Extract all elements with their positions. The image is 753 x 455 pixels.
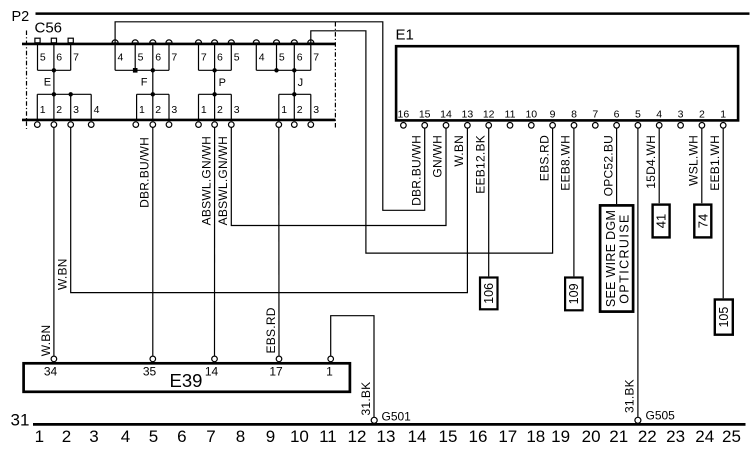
ground rail 31 [33,423,746,426]
svg-text:3: 3 [234,104,240,116]
svg-text:C56: C56 [35,20,63,37]
svg-text:1: 1 [720,108,726,120]
junction P bottom pin 2 [212,92,216,96]
svg-text:4: 4 [118,52,124,64]
svg-text:DBR.BU/WH: DBR.BU/WH [409,135,423,206]
junction J bottom pin 2 [292,92,296,96]
svg-text:106: 106 [482,283,496,304]
wire ABSWL.GN/WH C56 P:2 to E39:14 [214,128,216,356]
junction on splice E [52,68,56,72]
connector C56 dashed boundary right [334,22,336,129]
terminal box 105 [715,300,733,335]
wire OPC52.BU E1:6 to opticruise box [616,128,618,204]
svg-text:W.BN: W.BN [55,258,69,290]
connector C56 cavity J top pins 4 5 6 7 [253,40,319,70]
svg-text:G505: G505 [646,409,676,423]
svg-text:14: 14 [408,427,427,446]
svg-text:23: 23 [666,427,685,446]
svg-text:17: 17 [498,427,517,446]
svg-text:25: 25 [722,427,741,446]
svg-text:2: 2 [297,104,303,116]
svg-text:15: 15 [419,108,431,120]
svg-text:6: 6 [56,52,62,64]
svg-text:109: 109 [567,283,581,304]
svg-text:DBR.BU/WH: DBR.BU/WH [138,137,152,208]
svg-text:G501: G501 [382,410,412,424]
terminal box 41 [653,205,670,238]
svg-text:15D4.WH: 15D4.WH [644,135,658,189]
svg-text:W.BN: W.BN [452,135,466,167]
junction F bottom pin 2 [151,92,155,96]
svg-text:8: 8 [236,427,245,446]
svg-text:2: 2 [56,104,62,116]
connector C56 cavity F top pins 4 5 6 7 [112,40,177,70]
svg-text:4: 4 [121,427,130,446]
svg-text:1: 1 [35,427,44,446]
svg-text:8: 8 [571,108,577,120]
svg-text:5: 5 [138,52,144,64]
svg-text:OPC52.BU: OPC52.BU [601,135,615,196]
wire splice P link [214,70,216,94]
junction square F pin 5 [133,68,138,73]
svg-text:ABSWL.GN/WH: ABSWL.GN/WH [199,136,213,225]
junction on splice J pin 5 [274,68,278,72]
junction E bottom pin 3 [69,92,73,96]
svg-text:4: 4 [259,52,265,64]
svg-text:EBS.RD: EBS.RD [537,135,551,181]
svg-text:12: 12 [348,427,367,446]
svg-text:12: 12 [483,108,495,120]
wire W.BN C56 E:3 to E1:13 [71,128,468,293]
ECU E39 box [24,363,350,392]
svg-text:E39: E39 [170,370,203,391]
svg-text:1: 1 [326,365,333,379]
svg-text:6: 6 [614,108,620,120]
svg-text:OPTICRUISE: OPTICRUISE [618,213,632,303]
svg-text:7: 7 [73,52,79,64]
wire splice F link [152,70,154,94]
terminal box 106 [480,278,498,310]
connector C56 cavity P top pins 7 6 5 [195,40,239,70]
svg-text:J: J [298,77,304,89]
svg-text:21: 21 [609,427,628,446]
svg-text:14: 14 [440,108,452,120]
svg-text:W.BN: W.BN [39,325,53,357]
junction on splice P [212,68,216,72]
wire C56 lower bus [22,119,335,122]
svg-text:7: 7 [592,108,598,120]
svg-text:35: 35 [143,365,157,379]
svg-text:9: 9 [266,427,275,446]
svg-text:7: 7 [171,52,177,64]
svg-text:7: 7 [201,52,207,64]
wire 15D4.WH E1:4 to terminal 41 [658,128,660,203]
svg-text:SEE WIRE DGM: SEE WIRE DGM [604,210,618,307]
svg-text:11: 11 [505,108,516,120]
connector C56 cavity F bottom pins 1 2 3 [133,94,177,127]
svg-text:WSL.WH: WSL.WH [687,135,701,186]
terminal box 74 [694,205,711,238]
svg-text:19: 19 [551,427,570,446]
svg-text:9: 9 [550,108,556,120]
svg-text:5: 5 [635,108,641,120]
svg-text:7: 7 [313,52,319,64]
connector C56 cavity P bottom pins 1 2 3 [196,94,240,127]
grid reference numbers 1-25 [35,427,741,446]
svg-text:1: 1 [40,104,46,116]
svg-text:14: 14 [205,365,219,379]
svg-text:15: 15 [439,427,458,446]
wire W.BN C56 E:2 to E39:34 [53,128,55,356]
connector C56 cavity E top pins 5 6 7 [35,38,79,70]
svg-text:EEB8.WH: EEB8.WH [559,135,573,191]
svg-text:34: 34 [44,365,58,379]
svg-text:GN/WH: GN/WH [431,135,445,178]
svg-text:1: 1 [201,104,207,116]
svg-text:31.BK: 31.BK [623,379,637,413]
wire EEB12.BK E1:12 to terminal 106 [488,128,490,276]
svg-text:7: 7 [206,427,215,446]
junction on splice F [151,68,155,72]
wire EEB1.WH E1:1 to terminal 105 [722,128,724,298]
wire WSL.WH E1:2 to terminal 74 [701,128,703,203]
svg-text:5: 5 [279,52,285,64]
junction E bottom pin 2 [52,92,56,96]
wire EBS.RD C56 J:7 to E1:9 [311,31,553,253]
svg-text:1: 1 [281,104,287,116]
svg-text:6: 6 [217,52,223,64]
connector C56 cavity J bottom pins 1 2 3 [276,94,319,127]
wire P2 rail [36,12,750,15]
svg-text:10: 10 [525,108,537,120]
svg-text:EEB12.BK: EEB12.BK [473,135,487,194]
wire EBS.RD C56 J:1 to E39:17 [278,128,280,356]
svg-text:3: 3 [73,104,79,116]
svg-text:P2: P2 [12,9,30,25]
svg-text:17: 17 [269,365,283,379]
svg-text:31.BK: 31.BK [359,382,373,416]
svg-text:13: 13 [377,427,396,446]
svg-text:20: 20 [582,427,601,446]
ECU E1 box [396,46,738,120]
wire DBR.BU/WH C56 F:2 to E39:35 [152,128,154,356]
svg-text:18: 18 [526,427,545,446]
svg-text:41: 41 [654,214,669,228]
wire splice J link [293,70,295,94]
svg-text:P: P [219,77,226,89]
svg-text:2: 2 [699,108,705,120]
svg-text:10: 10 [290,427,309,446]
svg-text:ABSWL.GN/WH: ABSWL.GN/WH [216,136,230,225]
svg-text:3: 3 [313,104,319,116]
svg-text:24: 24 [695,427,714,446]
svg-text:6: 6 [177,427,186,446]
svg-text:16: 16 [469,427,488,446]
svg-text:105: 105 [717,307,731,328]
wire C56 upper bus [22,43,335,46]
junction on splice J pin 6 [292,68,296,72]
svg-text:2: 2 [62,427,71,446]
svg-text:22: 22 [638,427,657,446]
ECU E1 pin terminals [401,123,726,129]
svg-text:74: 74 [695,214,710,228]
terminal box SEE WIRE DGM OPTICRUISE [600,205,633,311]
svg-text:1: 1 [139,104,145,116]
ground G505 terminal [635,417,641,423]
svg-text:16: 16 [398,108,410,120]
wire 31.BK E39:1 to ground G501 [331,316,374,418]
connector C56 cavity E bottom pins 1 2 3 4 [35,94,100,127]
svg-text:4: 4 [656,108,662,120]
svg-text:6: 6 [155,52,161,64]
connector C56 dashed boundary left [26,31,28,130]
svg-text:3: 3 [678,108,684,120]
svg-text:4: 4 [94,104,100,116]
wire splice E link [53,70,55,94]
terminal box 109 [565,278,583,311]
svg-text:3: 3 [89,427,98,446]
svg-text:11: 11 [319,427,337,446]
svg-text:5: 5 [40,52,46,64]
svg-text:3: 3 [171,104,177,116]
svg-text:2: 2 [155,104,161,116]
svg-text:2: 2 [217,104,223,116]
ECU E1 pin numbers 16..1 [398,108,727,120]
svg-text:E1: E1 [396,27,414,44]
svg-text:13: 13 [462,108,474,120]
wire DBR.BU/WH C56 F:4 to E1:15 [115,22,425,211]
svg-text:6: 6 [297,52,303,64]
svg-text:5: 5 [149,427,158,446]
svg-text:31: 31 [11,411,30,430]
ground G501 terminal [371,417,377,423]
svg-text:E: E [44,76,51,88]
svg-text:F: F [141,76,148,88]
wire 31.BK E1:5 to ground G505 [637,128,639,418]
svg-text:EBS.RD: EBS.RD [264,307,278,353]
ECU E39 pin numbers [44,365,333,379]
wire ABSWL.GN/WH C56 P:3 to E1:14 [231,128,446,226]
ECU E39 pin terminals [51,356,333,362]
wire EEB8.WH E1:8 to terminal 109 [573,128,575,276]
svg-text:EEB1.WH: EEB1.WH [708,135,722,191]
svg-text:5: 5 [234,52,240,64]
